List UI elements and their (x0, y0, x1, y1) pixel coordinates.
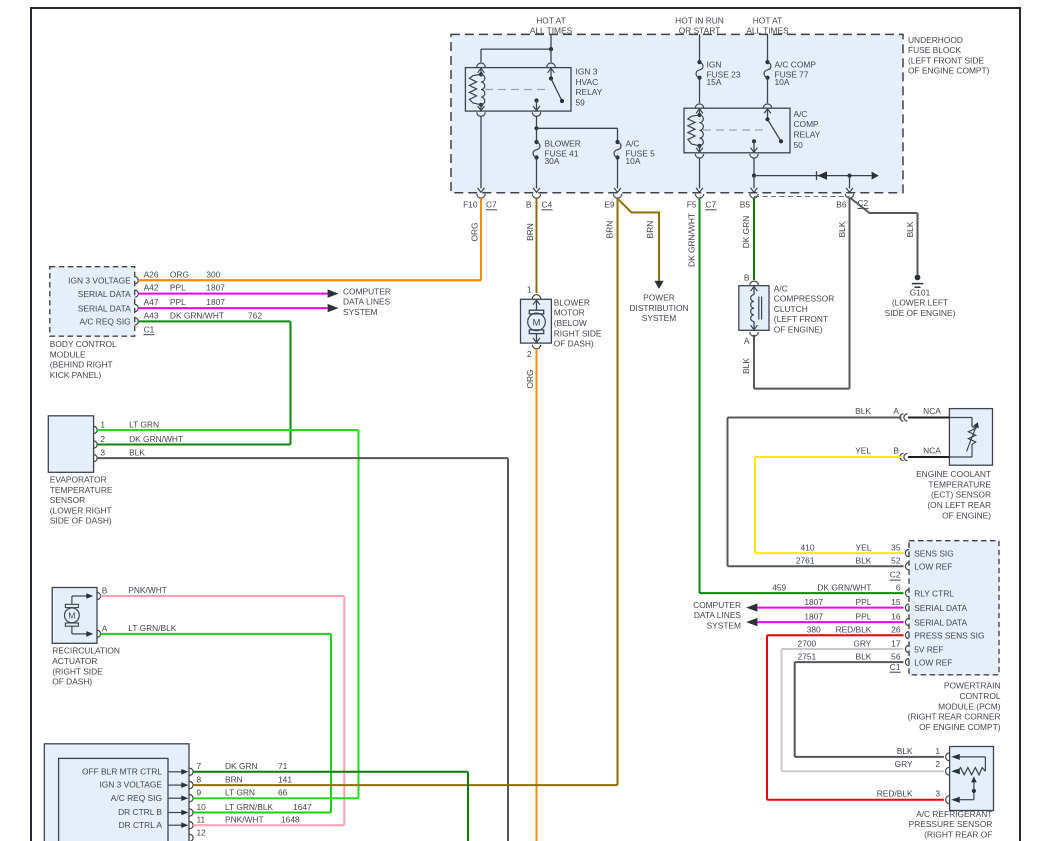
svg-text:A43: A43 (144, 310, 159, 320)
svg-text:2700: 2700 (798, 638, 817, 648)
svg-text:3: 3 (935, 788, 940, 798)
svg-text:B: B (893, 446, 899, 456)
svg-text:(LEFT FRONT SIDE: (LEFT FRONT SIDE (908, 55, 984, 65)
svg-text:BRN: BRN (225, 775, 243, 785)
svg-text:YEL: YEL (855, 446, 871, 456)
svg-text:BLK: BLK (855, 406, 871, 416)
svg-text:B: B (526, 199, 532, 209)
svg-text:1: 1 (527, 284, 532, 294)
svg-text:12: 12 (197, 827, 207, 837)
svg-text:(ON LEFT REAR: (ON LEFT REAR (927, 500, 991, 510)
svg-text:BLK: BLK (856, 652, 872, 662)
svg-text:M: M (68, 610, 75, 620)
svg-text:BRN: BRN (525, 223, 535, 241)
svg-text:15A: 15A (707, 77, 722, 87)
svg-text:LOW REF: LOW REF (914, 562, 952, 572)
svg-text:KICK PANEL): KICK PANEL) (50, 370, 102, 380)
svg-text:300: 300 (206, 269, 220, 279)
svg-text:TEMPERATURE: TEMPERATURE (928, 479, 991, 489)
svg-text:B: B (102, 586, 108, 596)
svg-text:1: 1 (100, 420, 105, 430)
svg-text:ALL TIMES: ALL TIMES (746, 25, 789, 35)
svg-text:F10: F10 (463, 199, 478, 209)
svg-text:BRN: BRN (645, 221, 655, 239)
svg-text:A: A (102, 623, 108, 633)
svg-text:10A: 10A (775, 77, 790, 87)
svg-text:1807: 1807 (804, 612, 823, 622)
svg-text:762: 762 (248, 310, 262, 320)
svg-text:A47: A47 (144, 297, 159, 307)
svg-text:PPL: PPL (856, 597, 872, 607)
svg-text:1807: 1807 (206, 297, 225, 307)
svg-text:GRY: GRY (895, 759, 913, 769)
svg-text:C1: C1 (144, 324, 155, 334)
svg-text:459: 459 (772, 583, 786, 593)
svg-text:SYSTEM: SYSTEM (343, 307, 377, 317)
svg-text:M: M (533, 317, 541, 328)
svg-text:DATA LINES: DATA LINES (694, 610, 742, 620)
svg-text:PRESS SENS SIG: PRESS SENS SIG (914, 631, 984, 641)
svg-text:10: 10 (197, 802, 207, 812)
svg-text:380: 380 (807, 625, 821, 635)
svg-text:LT GRN: LT GRN (225, 788, 255, 798)
svg-text:ORG: ORG (525, 369, 535, 388)
svg-text:(LOWER RIGHT: (LOWER RIGHT (50, 505, 112, 515)
svg-text:RIGHT SIDE: RIGHT SIDE (554, 328, 602, 338)
svg-text:HOT AT: HOT AT (536, 16, 565, 26)
svg-text:CONTROL: CONTROL (960, 691, 1001, 701)
svg-text:8: 8 (197, 775, 202, 785)
svg-text:15: 15 (891, 597, 901, 607)
svg-text:RELAY: RELAY (794, 130, 821, 140)
svg-text:COMPUTER: COMPUTER (693, 600, 741, 610)
svg-text:LT GRN/BLK: LT GRN/BLK (128, 623, 177, 633)
svg-text:COMPRESSOR: COMPRESSOR (774, 294, 835, 304)
svg-text:HVAC: HVAC (576, 77, 599, 87)
svg-text:MOTOR: MOTOR (554, 308, 585, 318)
svg-text:(BELOW: (BELOW (554, 318, 587, 328)
svg-text:B: B (744, 273, 750, 283)
svg-text:FUSE BLOCK: FUSE BLOCK (908, 45, 961, 55)
svg-text:16: 16 (891, 612, 901, 622)
svg-text:BLK: BLK (897, 746, 913, 756)
svg-text:OR START: OR START (679, 25, 721, 35)
svg-text:5V REF: 5V REF (914, 644, 943, 654)
svg-text:BLK: BLK (837, 221, 847, 237)
svg-text:A26: A26 (144, 269, 159, 279)
svg-text:DR CTRL A: DR CTRL A (119, 820, 163, 830)
svg-text:MODULE (PCM): MODULE (PCM) (938, 701, 1001, 711)
svg-text:OF ENGINE COMPT): OF ENGINE COMPT) (919, 722, 1001, 732)
svg-text:10A: 10A (626, 156, 641, 166)
svg-text:50: 50 (794, 140, 804, 150)
svg-text:C1: C1 (890, 662, 901, 672)
svg-text:NCA: NCA (923, 406, 941, 416)
svg-text:PRESSURE SENSOR: PRESSURE SENSOR (909, 819, 993, 829)
svg-text:PNK/WHT: PNK/WHT (225, 815, 264, 825)
svg-text:35: 35 (891, 543, 901, 553)
svg-text:BLK: BLK (129, 448, 145, 458)
svg-text:F5: F5 (687, 199, 697, 209)
svg-text:141: 141 (278, 775, 292, 785)
svg-text:OF DASH): OF DASH) (554, 339, 594, 349)
svg-text:6: 6 (896, 583, 901, 593)
svg-text:410: 410 (801, 543, 815, 553)
svg-text:OF DASH): OF DASH) (52, 677, 92, 687)
svg-text:ORG: ORG (470, 222, 480, 241)
svg-text:C2: C2 (890, 570, 901, 580)
svg-text:BLK: BLK (905, 221, 915, 237)
svg-text:E9: E9 (604, 199, 615, 209)
svg-text:OF ENGINE COMPT): OF ENGINE COMPT) (908, 66, 990, 76)
svg-text:MODULE: MODULE (50, 349, 86, 359)
svg-text:7: 7 (197, 761, 202, 771)
svg-text:1647: 1647 (293, 802, 312, 812)
svg-text:(RIGHT REAR CORNER: (RIGHT REAR CORNER (908, 712, 1001, 722)
svg-text:PPL: PPL (170, 283, 186, 293)
svg-text:2: 2 (935, 759, 940, 769)
svg-text:PPL: PPL (856, 612, 872, 622)
svg-text:ALL TIMES: ALL TIMES (530, 25, 573, 35)
svg-text:30A: 30A (545, 156, 560, 166)
svg-text:RELAY: RELAY (576, 87, 603, 97)
svg-text:1807: 1807 (804, 597, 823, 607)
svg-text:SERIAL DATA: SERIAL DATA (914, 603, 967, 613)
svg-text:C4: C4 (542, 199, 553, 209)
svg-text:C2: C2 (858, 198, 869, 208)
svg-text:SERIAL DATA: SERIAL DATA (914, 618, 967, 628)
svg-text:(RIGHT SIDE: (RIGHT SIDE (52, 666, 103, 676)
svg-text:(ECT) SENSOR: (ECT) SENSOR (931, 490, 991, 500)
svg-text:OF ENGINE): OF ENGINE) (942, 510, 991, 520)
svg-text:(LEFT FRONT: (LEFT FRONT (774, 314, 828, 324)
svg-text:SENS SIG: SENS SIG (914, 549, 954, 559)
svg-text:(RIGHT REAR OF: (RIGHT REAR OF (924, 830, 992, 840)
svg-text:A42: A42 (144, 283, 159, 293)
svg-text:BLK: BLK (741, 358, 751, 374)
svg-text:POWER: POWER (643, 293, 675, 303)
svg-text:A/C: A/C (774, 283, 788, 293)
svg-text:IGN: IGN (707, 59, 722, 69)
svg-text:RECIRCULATION: RECIRCULATION (52, 646, 120, 656)
svg-text:UNDERHOOD: UNDERHOOD (908, 35, 963, 45)
svg-text:66: 66 (278, 788, 288, 798)
svg-text:PNK/WHT: PNK/WHT (128, 585, 167, 595)
svg-text:2: 2 (527, 349, 532, 359)
svg-text:SERIAL DATA: SERIAL DATA (78, 289, 131, 299)
svg-text:11: 11 (197, 815, 206, 825)
svg-text:GRY: GRY (853, 638, 871, 648)
svg-text:2761: 2761 (796, 556, 815, 566)
svg-text:BODY CONTROL: BODY CONTROL (50, 339, 117, 349)
svg-text:RLY CTRL: RLY CTRL (914, 589, 954, 599)
svg-text:1807: 1807 (206, 283, 225, 293)
svg-text:DK GRN/WHT: DK GRN/WHT (817, 583, 871, 593)
svg-text:SYSTEM: SYSTEM (642, 313, 676, 323)
svg-text:59: 59 (576, 98, 586, 108)
svg-text:CLUTCH: CLUTCH (774, 304, 808, 314)
svg-text:B5: B5 (740, 199, 751, 209)
svg-text:A/C REFRIGERANT: A/C REFRIGERANT (916, 809, 992, 819)
svg-text:52: 52 (891, 556, 901, 566)
svg-text:DR CTRL B: DR CTRL B (118, 807, 162, 817)
svg-text:17: 17 (891, 638, 901, 648)
svg-text:BLOWER: BLOWER (554, 297, 590, 307)
svg-text:DK GRN/WHT: DK GRN/WHT (687, 213, 697, 267)
svg-text:G101: G101 (910, 287, 931, 297)
svg-text:A: A (893, 406, 899, 416)
svg-text:2751: 2751 (798, 652, 817, 662)
svg-text:B6: B6 (836, 199, 847, 209)
svg-text:2: 2 (100, 434, 105, 444)
svg-text:56: 56 (891, 652, 901, 662)
svg-text:A/C: A/C (794, 109, 808, 119)
svg-text:1648: 1648 (281, 815, 300, 825)
svg-text:SERIAL DATA: SERIAL DATA (78, 303, 131, 313)
svg-text:EVAPORATOR: EVAPORATOR (50, 475, 107, 485)
svg-text:IGN 3 VOLTAGE: IGN 3 VOLTAGE (99, 780, 162, 790)
svg-text:LT GRN: LT GRN (129, 420, 159, 430)
svg-text:SIDE OF DASH): SIDE OF DASH) (50, 516, 112, 526)
svg-text:RED/BLK: RED/BLK (877, 788, 913, 798)
svg-text:A: A (744, 336, 750, 346)
svg-text:BRN: BRN (605, 221, 615, 239)
svg-text:LOW REF: LOW REF (914, 658, 952, 668)
svg-text:LT GRN/BLK: LT GRN/BLK (225, 802, 274, 812)
svg-text:26: 26 (891, 625, 901, 635)
svg-text:SENSOR: SENSOR (50, 495, 85, 505)
svg-text:(BEHIND RIGHT: (BEHIND RIGHT (50, 360, 113, 370)
svg-text:RED/BLK: RED/BLK (836, 625, 872, 635)
svg-text:A/C REQ SIG: A/C REQ SIG (79, 317, 130, 327)
svg-text:71: 71 (278, 761, 288, 771)
svg-text:HOT IN RUN: HOT IN RUN (675, 16, 724, 26)
svg-text:BLK: BLK (856, 556, 872, 566)
svg-text:1: 1 (935, 746, 940, 756)
svg-text:OFF BLR MTR CTRL: OFF BLR MTR CTRL (82, 766, 162, 776)
svg-text:A/C REQ SIG: A/C REQ SIG (111, 793, 162, 803)
svg-text:ENGINE COOLANT: ENGINE COOLANT (916, 469, 991, 479)
svg-text:TEMPERATURE: TEMPERATURE (50, 485, 113, 495)
svg-text:YEL: YEL (856, 543, 872, 553)
svg-text:A/C: A/C (626, 138, 640, 148)
svg-text:HOT AT: HOT AT (753, 16, 782, 26)
svg-text:DK GRN: DK GRN (225, 761, 258, 771)
svg-text:SIDE OF ENGINE): SIDE OF ENGINE) (885, 308, 956, 318)
svg-text:9: 9 (197, 788, 202, 798)
svg-text:IGN 3: IGN 3 (576, 66, 598, 76)
svg-text:ORG: ORG (170, 269, 189, 279)
svg-text:(LOWER LEFT: (LOWER LEFT (892, 298, 948, 308)
svg-text:COMP: COMP (794, 119, 820, 129)
svg-text:DK GRN/WHT: DK GRN/WHT (129, 434, 183, 444)
svg-text:SYSTEM: SYSTEM (707, 621, 741, 631)
svg-text:COMPUTER: COMPUTER (343, 286, 391, 296)
svg-text:IGN 3 VOLTAGE: IGN 3 VOLTAGE (68, 276, 131, 286)
svg-text:DK GRN/WHT: DK GRN/WHT (170, 310, 224, 320)
svg-text:OF ENGINE): OF ENGINE) (774, 325, 823, 335)
svg-text:NCA: NCA (923, 446, 941, 456)
svg-text:C7: C7 (486, 199, 497, 209)
svg-text:ACTUATOR: ACTUATOR (52, 656, 97, 666)
svg-text:DK GRN: DK GRN (741, 216, 751, 249)
svg-text:A/C COMP: A/C COMP (775, 59, 817, 69)
svg-text:BLOWER: BLOWER (545, 138, 581, 148)
svg-text:PPL: PPL (170, 297, 186, 307)
svg-text:DATA LINES: DATA LINES (343, 297, 391, 307)
svg-text:3: 3 (100, 448, 105, 458)
svg-text:DISTRIBUTION: DISTRIBUTION (629, 303, 688, 313)
svg-text:C7: C7 (706, 199, 717, 209)
svg-text:POWERTRAIN: POWERTRAIN (944, 681, 1001, 691)
